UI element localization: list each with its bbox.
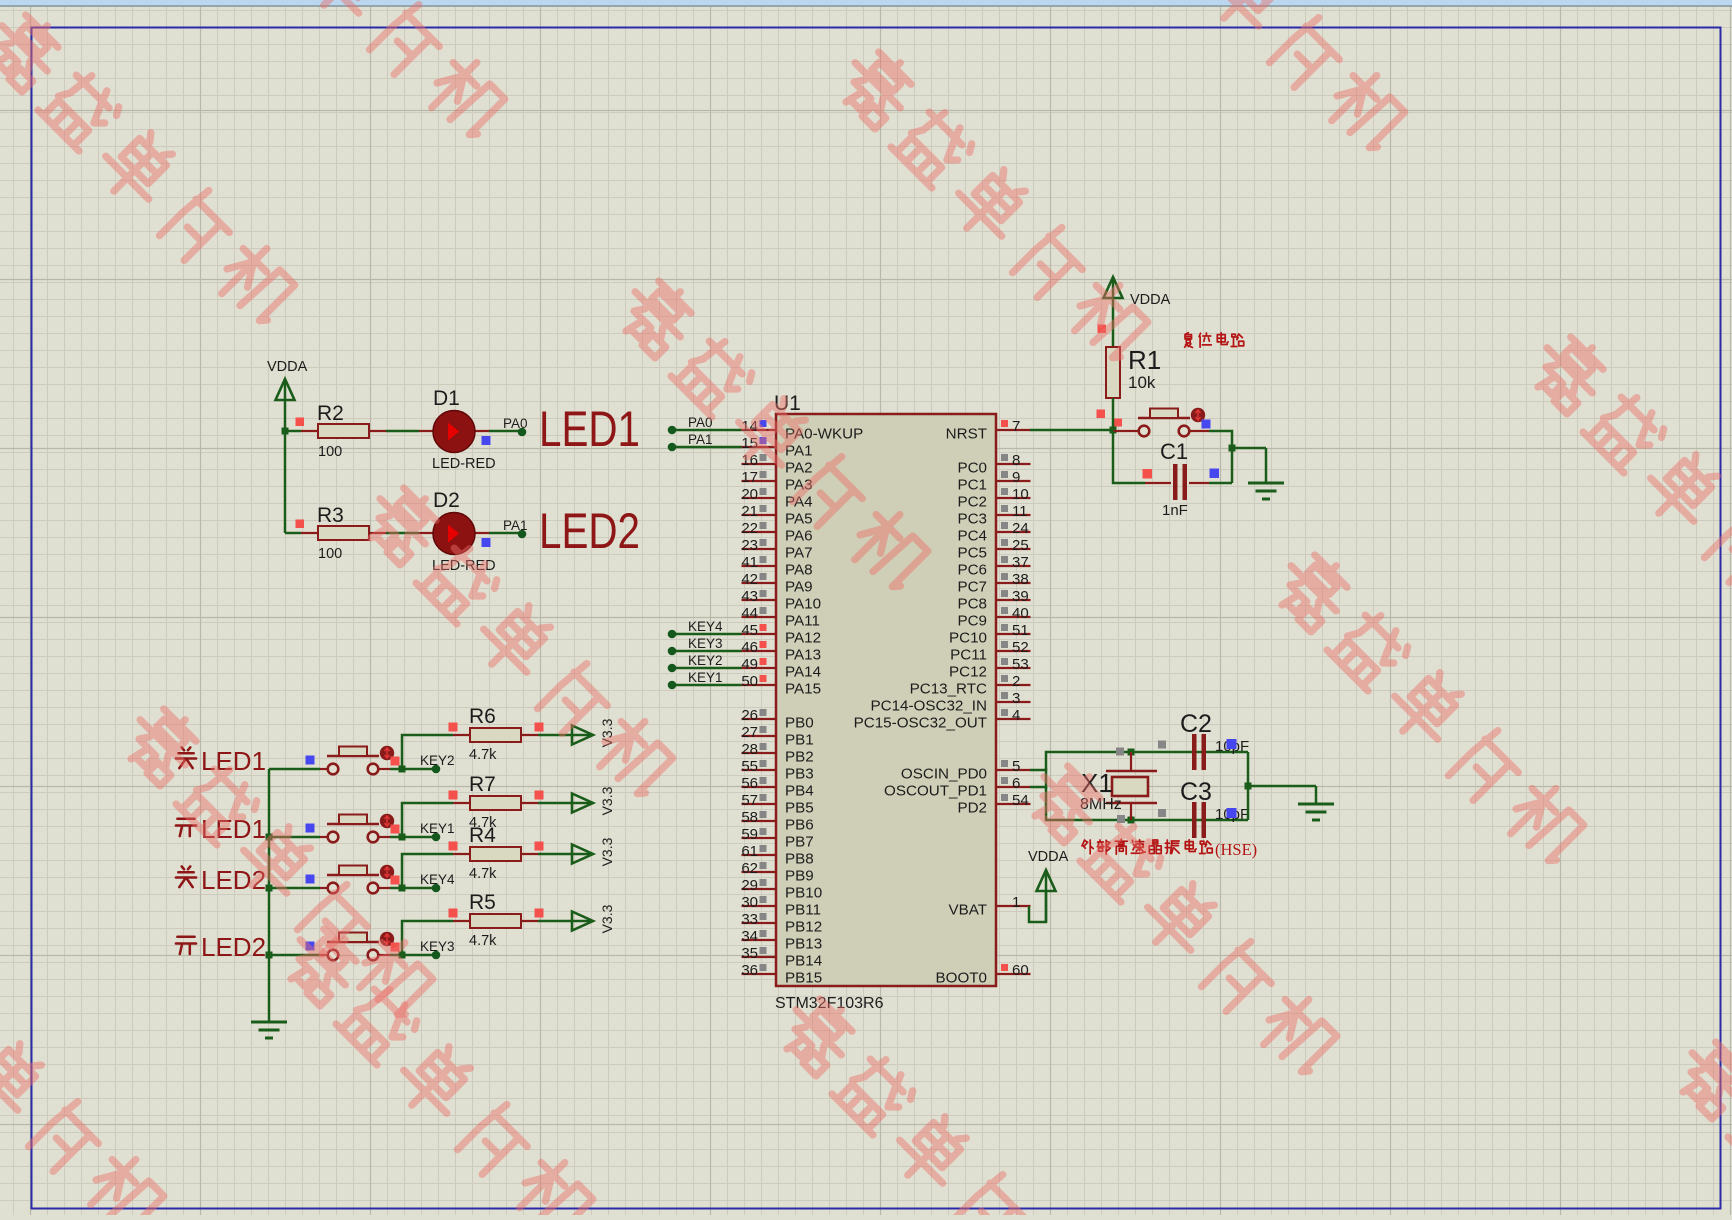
pin 54 PD2 [957,792,1030,817]
pin 57 PB5 [741,792,813,817]
svg-text:55: 55 [741,758,758,775]
wire net PA0 to U1 [668,415,742,434]
svg-text:10k: 10k [1128,373,1156,392]
pin 51 PC10 [949,622,1031,647]
pin 50 PA15 [741,673,821,698]
svg-text:1nF: 1nF [1162,502,1188,519]
svg-text:LED1: LED1 [201,814,266,844]
svg-text:C3: C3 [1180,778,1212,806]
svg-text:56: 56 [741,775,758,792]
svg-text:36: 36 [741,962,758,979]
svg-text:21: 21 [741,503,758,520]
svg-text:11: 11 [1012,503,1028,520]
svg-text:PB4: PB4 [785,783,814,800]
svg-text:(HSE): (HSE) [1215,840,1257,859]
svg-text:PA13: PA13 [785,647,821,664]
svg-text:28: 28 [741,741,758,758]
svg-text:R6: R6 [469,705,496,728]
svg-text:49: 49 [741,656,758,673]
svg-text:38: 38 [1012,571,1029,588]
svg-text:17: 17 [741,469,758,486]
svg-text:PA5: PA5 [785,511,813,528]
wire R4 to V3.3 [538,853,593,856]
svg-text:15: 15 [741,435,758,452]
wire KEY3 node [390,939,455,959]
wire R3 branch [285,532,301,535]
capacitor C1 1nF [1143,439,1233,519]
pin 58 PB6 [741,809,813,834]
wire R3 to D2 [386,532,419,535]
ground (reset) [1248,483,1284,499]
svg-text:3: 3 [1012,690,1020,707]
pin 9 PC1 [957,469,1030,494]
pin 15 PA1 [741,435,812,460]
svg-text:4.7k: 4.7k [469,747,497,763]
resistor R1 10k (vertical) [1097,325,1162,427]
svg-text:25: 25 [1012,537,1029,554]
wire VDDA bus down to R3 row [284,431,287,533]
pin 43 PA10 [741,588,821,613]
push button reset [1113,408,1211,437]
svg-text:R1: R1 [1128,345,1161,375]
svg-text:STM32F103R6: STM32F103R6 [775,995,884,1012]
svg-text:PB8: PB8 [785,851,814,868]
pin 38 PC7 [957,571,1030,596]
svg-text:44: 44 [741,605,758,622]
resistor R5 4.7k [449,891,544,949]
svg-text:PA7: PA7 [785,545,813,562]
svg-text:22: 22 [741,520,758,537]
wire net KEY1 to U1 [668,670,742,689]
svg-text:5: 5 [1012,758,1020,775]
svg-text:PA0: PA0 [688,415,713,430]
svg-text:PB3: PB3 [785,766,814,783]
wire R6 to V3.3 [538,734,593,737]
svg-text:30: 30 [741,894,758,911]
svg-text:V3.3: V3.3 [599,837,615,866]
svg-text:PB5: PB5 [785,800,814,817]
svg-text:4: 4 [1012,707,1020,724]
svg-text:LED2: LED2 [201,932,266,962]
svg-text:PB9: PB9 [785,868,814,885]
wire VBAT pin1 to VDDA [1029,890,1046,922]
svg-text:C2: C2 [1180,710,1212,738]
svg-text:39: 39 [1012,588,1029,605]
capacitor C2 10pF [1180,710,1249,770]
wire R5 to V3.3 [538,920,593,923]
svg-text:PA0: PA0 [503,416,528,431]
node PA0 (LED side) [503,416,528,436]
svg-text:PB15: PB15 [785,970,822,987]
svg-text:24: 24 [1012,520,1029,537]
crystal X1 8MHz [1080,741,1166,824]
svg-text:R2: R2 [317,402,344,425]
svg-text:100: 100 [318,546,342,562]
label 开LED1 [176,814,266,844]
pin 26 PB0 [741,707,813,732]
svg-text:PA10: PA10 [785,596,821,613]
svg-text:41: 41 [741,554,758,571]
power V3.3 (R7) [572,786,615,815]
svg-text:D1: D1 [433,387,460,410]
label LED2 [539,503,640,559]
svg-text:VDDA: VDDA [1130,292,1171,308]
svg-text:KEY3: KEY3 [420,939,455,954]
svg-text:4.7k: 4.7k [469,866,497,882]
pin 44 PA11 [741,605,820,630]
svg-text:PC6: PC6 [957,562,987,579]
svg-text:PC5: PC5 [957,545,987,562]
svg-text:34: 34 [741,928,758,945]
wire OSCOUT pin6 to X1 bottom rail [1030,768,1248,820]
svg-text:BOOT0: BOOT0 [936,970,987,987]
svg-text:V3.3: V3.3 [599,904,615,933]
pin 40 PC9 [957,605,1030,630]
junction X1 top [1128,749,1135,756]
svg-text:53: 53 [1012,656,1029,673]
pin 24 PC4 [957,520,1030,545]
svg-text:PC8: PC8 [957,596,987,613]
svg-text:NRST: NRST [946,426,987,443]
svg-text:PB0: PB0 [785,715,814,732]
svg-text:KEY2: KEY2 [688,653,723,668]
svg-text:PA12: PA12 [785,630,821,647]
pin 30 PB11 [741,894,821,919]
svg-text:PA1: PA1 [785,443,813,460]
pin 37 PC6 [957,554,1030,579]
svg-text:PB7: PB7 [785,834,814,851]
svg-text:7: 7 [1012,418,1020,435]
pin 29 PB10 [741,877,822,902]
svg-text:1: 1 [1012,894,1020,911]
wire OSCIN pin5 to X1 top rail [1030,752,1248,770]
pin 6 OSCOUT_PD1 [884,775,1030,800]
pin 35 PB14 [741,945,822,970]
junction X1 bottom [1128,817,1135,824]
pin 25 PC5 [957,537,1030,562]
pin 17 PA3 [741,469,812,494]
ground (HSE) [1298,804,1334,820]
wire KEY4 node [390,872,455,892]
svg-text:VDDA: VDDA [1028,849,1069,865]
pin 49 PA14 [741,656,821,681]
svg-text:26: 26 [741,707,758,724]
svg-text:VBAT: VBAT [948,902,987,919]
svg-text:U1: U1 [774,392,801,415]
wire net KEY2 to U1 [668,653,742,672]
svg-text:R5: R5 [469,891,496,914]
pin 61 PB8 [741,843,813,868]
svg-text:PD2: PD2 [957,800,987,817]
resistor R7 4.7k [449,773,544,831]
svg-text:PC9: PC9 [957,613,987,630]
wire net KEY3 to U1 [668,636,742,655]
wire KEY2 node [390,753,455,773]
wire riser to R4 [402,854,453,888]
svg-text:PA11: PA11 [785,613,820,630]
pin 53 PC12 [949,656,1031,681]
svg-text:PA2: PA2 [785,460,813,477]
svg-text:PC4: PC4 [957,528,987,545]
junction node VDDA/R2/R3 [282,428,289,435]
pin 34 PB13 [741,928,822,953]
wire D1 to node PA0 [489,430,522,433]
power V3.3 (R4) [572,837,615,866]
wire R7 to V3.3 [538,802,593,805]
svg-text:R3: R3 [317,504,344,527]
wire riser to R5 [402,921,453,955]
pin 41 PA8 [741,554,812,579]
pin 59 PB7 [741,826,813,851]
svg-text:PB2: PB2 [785,749,814,766]
svg-text:PB13: PB13 [785,936,822,953]
svg-text:40: 40 [1012,605,1029,622]
pin 27 PB1 [741,724,813,749]
pin 3 PC14-OSC32_IN [871,690,1031,715]
wire R2 to D1 [386,430,419,433]
svg-text:PC14-OSC32_IN: PC14-OSC32_IN [871,698,988,715]
svg-text:KEY3: KEY3 [688,636,723,651]
svg-text:PA8: PA8 [785,562,813,579]
pin 5 OSCIN_PD0 [901,758,1031,783]
svg-text:PC3: PC3 [957,511,987,528]
push button KEY2 [269,746,400,775]
label 开LED2 [176,932,266,962]
svg-text:PB11: PB11 [785,902,821,919]
svg-text:42: 42 [741,571,758,588]
pin 45 PA12 [741,622,821,647]
svg-text:50: 50 [741,673,758,690]
svg-text:60: 60 [1012,962,1029,979]
svg-text:PB1: PB1 [785,732,814,749]
svg-text:57: 57 [741,792,758,809]
svg-text:PB10: PB10 [785,885,822,902]
power V3.3 (R5) [572,904,615,933]
svg-text:PA14: PA14 [785,664,821,681]
svg-text:27: 27 [741,724,758,741]
wire net PA1 to U1 [668,432,742,451]
svg-text:PB14: PB14 [785,953,822,970]
svg-text:45: 45 [741,622,758,639]
svg-text:9: 9 [1012,469,1020,486]
pin 52 PC11 [950,639,1030,664]
svg-text:PC15-OSC32_OUT: PC15-OSC32_OUT [854,715,987,732]
svg-text:KEY4: KEY4 [688,619,723,634]
wire riser to R6 [402,735,453,769]
svg-text:PC1: PC1 [957,477,987,494]
wire NRST U1 to node [1030,429,1113,432]
svg-text:D2: D2 [433,489,460,512]
pin 21 PA5 [741,503,812,528]
LED D1 LED-RED [419,387,496,472]
svg-text:20: 20 [741,486,758,503]
svg-text:43: 43 [741,588,758,605]
pin 8 PC0 [957,452,1030,477]
svg-text:PC2: PC2 [957,494,987,511]
wire button to C1 right / ground branch [1209,431,1266,483]
pin 10 PC2 [957,486,1030,511]
svg-text:100: 100 [318,444,342,460]
label 关LED2 [176,865,266,895]
svg-text:V3.3: V3.3 [599,718,615,747]
wire riser to R7 [402,803,453,837]
svg-text:LED1: LED1 [539,401,640,457]
svg-text:PC0: PC0 [957,460,987,477]
svg-text:PA1: PA1 [688,432,713,447]
svg-text:PC7: PC7 [957,579,987,596]
pin 2 PC13_RTC [910,673,1031,698]
label 关LED1 [176,746,266,776]
pin 55 PB3 [741,758,813,783]
wire R1 to NRST node [1112,398,1115,431]
pin 33 PB12 [741,911,822,936]
svg-text:VDDA: VDDA [267,359,308,375]
resistor R6 4.7k [449,705,544,763]
svg-text:51: 51 [1012,622,1029,639]
svg-text:8: 8 [1012,452,1020,469]
svg-text:58: 58 [741,809,758,826]
power V3.3 (R6) [572,718,615,747]
svg-text:62: 62 [741,860,758,877]
svg-text:59: 59 [741,826,758,843]
svg-text:OSCOUT_PD1: OSCOUT_PD1 [884,783,987,800]
resistor R4 4.7k [449,824,544,882]
resistor R3 100 [296,504,387,562]
svg-text:23: 23 [741,537,758,554]
svg-text:PC11: PC11 [950,647,987,664]
power VDDA (reset) [1104,277,1171,347]
push button KEY3 [269,932,400,961]
svg-text:C1: C1 [1160,439,1188,464]
svg-text:52: 52 [1012,639,1029,656]
svg-text:PA3: PA3 [785,477,813,494]
power VDDA (VBAT) [1028,849,1069,922]
pin 56 PB4 [741,775,813,800]
svg-text:6: 6 [1012,775,1020,792]
capacitor C3 10pF [1180,778,1249,838]
svg-text:KEY4: KEY4 [420,872,455,887]
wire KEY1 node [390,821,455,841]
pin 14 PA0-WKUP [741,418,863,443]
svg-text:PA4: PA4 [785,494,813,511]
svg-text:29: 29 [741,877,758,894]
svg-text:4.7k: 4.7k [469,933,497,949]
pin 4 PC15-OSC32_OUT [854,707,1031,732]
svg-text:16: 16 [741,452,758,469]
note 复位电路 [1185,333,1244,348]
node PA1 (LED side) [503,518,528,538]
pin 39 PC8 [957,588,1030,613]
svg-text:KEY1: KEY1 [688,670,723,685]
svg-text:LED2: LED2 [539,503,640,559]
svg-text:PC13_RTC: PC13_RTC [910,681,987,698]
svg-text:37: 37 [1012,554,1029,571]
svg-text:33: 33 [741,911,758,928]
push button KEY4 [269,865,400,894]
svg-text:2: 2 [1012,673,1020,690]
svg-text:14: 14 [741,418,758,435]
svg-text:PC12: PC12 [949,664,987,681]
svg-text:PB6: PB6 [785,817,814,834]
svg-text:V3.3: V3.3 [599,786,615,815]
label LED1 [539,401,640,457]
svg-text:46: 46 [741,639,758,656]
wire net KEY4 to U1 [668,619,742,638]
svg-text:10: 10 [1012,486,1029,503]
svg-text:PA1: PA1 [503,518,528,533]
svg-text:PA15: PA15 [785,681,821,698]
note 外部高速晶振电路(HSE) [1082,839,1257,859]
ground (keys) [251,1022,287,1038]
svg-text:R4: R4 [469,824,496,847]
svg-text:54: 54 [1012,792,1029,809]
svg-text:61: 61 [741,843,758,860]
pin 11 PC3 [957,503,1030,528]
wire HSE right rail to ground [1245,752,1317,820]
pin 28 PB2 [741,741,813,766]
power VDDA (LED section) [267,359,308,431]
pin 42 PA9 [741,571,812,596]
wire NRST node to C1 left [1113,431,1145,483]
svg-text:LED2: LED2 [201,865,266,895]
resistor R2 100 [285,402,386,460]
svg-text:LED-RED: LED-RED [432,456,496,472]
svg-text:PC10: PC10 [949,630,987,647]
svg-text:X1: X1 [1081,768,1113,798]
pin 46 PA13 [741,639,821,664]
junction node NRST [1110,427,1117,434]
svg-text:R7: R7 [469,773,496,796]
svg-text:PA9: PA9 [785,579,813,596]
push button KEY1 [269,814,400,843]
pin 60 BOOT0 [936,962,1031,987]
svg-text:8MHz: 8MHz [1080,796,1122,813]
svg-text:OSCIN_PD0: OSCIN_PD0 [901,766,987,783]
svg-text:35: 35 [741,945,758,962]
svg-text:LED1: LED1 [201,746,266,776]
LED D2 LED-RED [419,489,496,574]
pin 1 VBAT [948,894,1030,919]
wire key ground bus [266,769,273,1022]
pin 36 PB15 [741,962,822,987]
svg-text:PA6: PA6 [785,528,813,545]
svg-text:KEY1: KEY1 [420,821,455,836]
pin 20 PA4 [741,486,812,511]
IC U1 STM32F103R6 [774,392,996,1012]
pin 62 PB9 [741,860,813,885]
pin 22 PA6 [741,520,812,545]
wire D2 to node PA1 [489,532,522,535]
svg-text:KEY2: KEY2 [420,753,455,768]
svg-text:PB12: PB12 [785,919,822,936]
pin 23 PA7 [741,537,812,562]
svg-text:LED-RED: LED-RED [432,558,496,574]
pin 7 NRST [946,418,1031,443]
svg-text:PA0-WKUP: PA0-WKUP [785,426,863,443]
pin 16 PA2 [741,452,812,477]
